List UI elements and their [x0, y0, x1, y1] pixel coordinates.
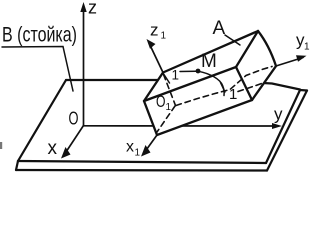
- svg-text:1: 1: [229, 86, 237, 103]
- svg-text:O: O: [69, 109, 79, 129]
- svg-text:A: A: [213, 18, 226, 39]
- svg-text:y: y: [274, 105, 283, 124]
- svg-text:1: 1: [172, 68, 180, 83]
- svg-text:z: z: [150, 21, 159, 40]
- svg-text:1: 1: [166, 102, 172, 113]
- svg-text:1: 1: [161, 31, 167, 42]
- svg-text:В (стойка): В (стойка): [2, 24, 77, 47]
- svg-text:x: x: [48, 138, 58, 159]
- svg-text:1: 1: [304, 42, 310, 53]
- svg-text:z: z: [88, 0, 97, 18]
- svg-text:x: x: [126, 139, 134, 156]
- svg-text:M: M: [201, 51, 217, 72]
- svg-text:O: O: [156, 92, 166, 111]
- svg-text:1: 1: [135, 148, 141, 159]
